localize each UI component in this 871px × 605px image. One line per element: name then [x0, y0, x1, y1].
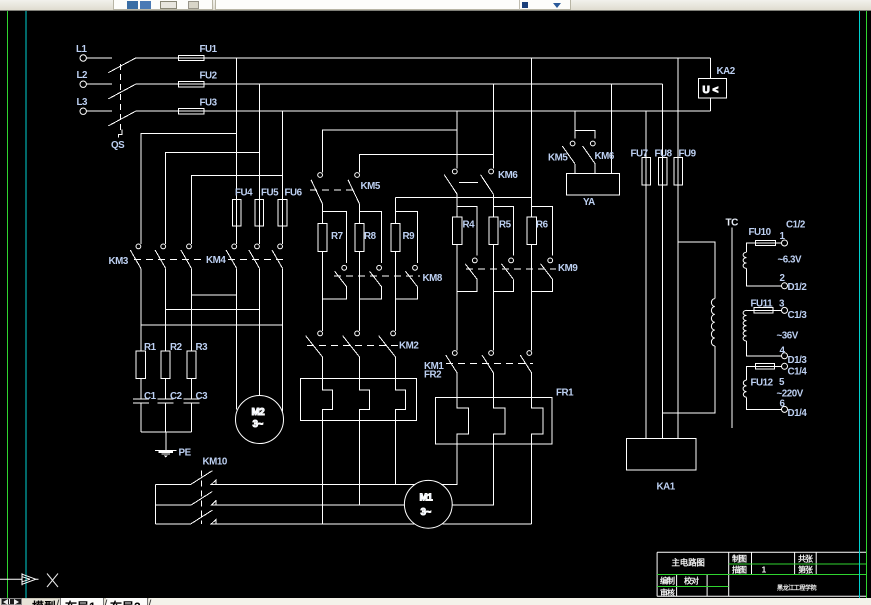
fuse FU6 — [278, 200, 287, 226]
svg-text:FU4: FU4 — [235, 188, 253, 199]
svg-text:审核: 审核 — [660, 588, 675, 598]
svg-text:KM5: KM5 — [548, 153, 568, 164]
svg-text:R8: R8 — [364, 231, 377, 242]
TC secondary winding 6.3V — [747, 243, 756, 252]
svg-text:第张: 第张 — [798, 565, 814, 575]
wire KM6p2 to R5 + bypass hook — [494, 194, 514, 255]
sheet outer border left (green) — [7, 11, 9, 598]
resistor R3 — [187, 351, 196, 379]
svg-text:校对: 校对 — [684, 576, 699, 586]
fuse FU7 — [642, 157, 651, 185]
wire bus1 drop to R6 column — [531, 58, 533, 198]
svg-text:FU12: FU12 — [751, 378, 774, 389]
switch QS handle — [119, 130, 123, 138]
wire to R1 — [140, 325, 142, 351]
FR1 heater element 3 — [532, 398, 543, 445]
contactor KM9 bypass contact pole 2 — [502, 258, 514, 279]
wire KM10 line1 to M1 (FR2p3 tee) — [216, 421, 416, 485]
terminal 6 D1/4 — [782, 406, 788, 412]
fuse FU3 — [136, 109, 205, 114]
capacitor C2 — [158, 379, 174, 432]
svg-text:C1/3: C1/3 — [788, 310, 808, 321]
wire to R3 — [190, 295, 192, 351]
svg-text:KM6: KM6 — [595, 151, 615, 162]
sheet inner frame left (cyan) — [25, 11, 27, 598]
wire secondary3 bottom to terminal 6 — [747, 397, 782, 409]
wire KM1 outputs to FR1 — [457, 373, 532, 398]
svg-text:制图: 制图 — [732, 554, 747, 564]
svg-text:L1: L1 — [76, 44, 88, 55]
contactor KM9 bypass contact pole 3 — [541, 258, 553, 279]
wire TC primary return to FU8 column — [663, 346, 715, 413]
KM1 linkage (dashed) — [446, 363, 533, 365]
FR2 heater element 1 — [323, 379, 333, 421]
svg-text:C3: C3 — [196, 391, 209, 402]
wire aux contacts to YA — [575, 164, 595, 173]
TC secondary winding 220V — [747, 366, 756, 380]
svg-text:FU1: FU1 — [200, 44, 218, 55]
svg-text:共张: 共张 — [798, 554, 814, 564]
contactor KM9 bypass contact pole 1 — [465, 258, 477, 279]
svg-text:U <: U < — [703, 85, 719, 96]
wire KM6p1 to R4 + bypass hook — [457, 194, 477, 255]
svg-text:描图: 描图 — [732, 565, 747, 575]
KM10 linkage (dashed) — [201, 471, 203, 524]
sheet inner frame right (cyan) — [859, 11, 861, 598]
svg-text:R5: R5 — [499, 220, 512, 231]
wire KA2 to bus3 end — [709, 98, 711, 111]
svg-text:C1/2: C1/2 — [786, 220, 806, 231]
svg-text:FU10: FU10 — [749, 227, 772, 238]
svg-text:FU3: FU3 — [200, 98, 218, 109]
FR1 heater element 1 — [457, 398, 468, 445]
fuse FU5 — [255, 200, 264, 226]
wire FR1p2 to M1 east — [452, 444, 493, 505]
svg-text:R4: R4 — [463, 220, 476, 231]
switch KM10 pole 3 — [156, 510, 216, 524]
title block green rules — [657, 564, 866, 587]
terminal 3 C1/3 — [782, 307, 788, 313]
svg-text:KM10: KM10 — [203, 457, 228, 468]
contactor KM1 main contact pole 2 — [482, 351, 494, 373]
svg-text:KA2: KA2 — [717, 66, 736, 77]
wire star node line — [396, 197, 532, 199]
wire capacitor bottom bus — [141, 431, 192, 433]
node L3 terminal — [80, 108, 112, 114]
capacitor C3 — [183, 379, 199, 432]
svg-text:KA1: KA1 — [657, 482, 676, 493]
FR1 heater element 2 — [494, 398, 505, 445]
wire bus1 col to R6 + bypass hook — [532, 198, 553, 256]
contactor KM6 main contact pole 2 — [481, 169, 494, 194]
motor M2 — [236, 396, 284, 444]
contactor KM2 main contact pole 3 — [379, 331, 396, 357]
relay KA2 box U< — [698, 79, 726, 98]
fuse FU12 — [756, 364, 782, 369]
thermal relay FR1 box — [435, 398, 552, 445]
svg-text:R9: R9 — [403, 231, 416, 242]
switch QS pole 2 — [108, 84, 135, 99]
wire bus3 drop to KM3 pole3 / FU6 — [191, 111, 282, 244]
wire bus2 drop to KM6 pole2 + branch KM5 pole2 — [360, 84, 494, 172]
resistor R5 — [489, 217, 498, 244]
wire star to R9 + bypass hook — [396, 198, 418, 264]
node L1 terminal — [80, 55, 112, 61]
svg-text:M1: M1 — [420, 493, 434, 504]
wire R8/KM8p2 joint — [360, 252, 382, 331]
wire bus3 drop to KM5/KM6 aux — [575, 111, 595, 139]
svg-text:TC: TC — [726, 218, 739, 229]
wire bus2 end drop to FU8 — [662, 84, 664, 157]
KM5 linkage (dashed) — [310, 189, 356, 191]
label M2 — [252, 407, 266, 430]
svg-text:KM6: KM6 — [498, 170, 518, 181]
svg-text:R6: R6 — [536, 220, 549, 231]
resistor R7 — [318, 224, 327, 252]
UCS icon X glyph — [47, 574, 58, 588]
svg-text:KM4: KM4 — [206, 255, 226, 266]
switch QS pole 1 — [108, 58, 135, 73]
wire FU7 to KA1 — [645, 185, 647, 439]
wire bus L1 — [204, 57, 710, 59]
node L2 terminal — [80, 81, 112, 87]
wire FU5 to KM4 pole2 — [258, 226, 260, 244]
svg-text:KM2: KM2 — [399, 341, 419, 352]
fuse FU9 — [674, 157, 683, 185]
svg-text:M2: M2 — [252, 407, 266, 418]
wire KM10 line2 to M1 west (FR2p2 tee) — [216, 421, 405, 506]
contactor KM5 aux contact — [562, 141, 575, 164]
KM8 linkage (dashed) — [334, 275, 420, 277]
svg-text:FU11: FU11 — [751, 299, 774, 310]
svg-text:PE: PE — [179, 448, 192, 459]
fuse FU11 — [754, 308, 782, 313]
KM4 linkage (dashed) — [228, 258, 284, 260]
resistor R4 — [453, 217, 462, 244]
svg-text:FU8: FU8 — [655, 149, 673, 160]
switch KM10 pole 1 — [156, 471, 216, 485]
FR2 heater element 2 — [360, 379, 370, 421]
resistor R6 — [527, 217, 536, 244]
wire KM4p3 to M2 — [282, 325, 284, 412]
resistor R9 — [391, 224, 400, 252]
KM9 linkage (dashed) — [466, 268, 556, 270]
contactor KM5 main contact pole 1 — [311, 173, 323, 204]
title block frame — [657, 552, 866, 596]
svg-text:KM5: KM5 — [361, 181, 381, 192]
switch QS linkage (dashed) — [119, 64, 121, 130]
contactor KM4 main contact pole 3 — [272, 244, 283, 268]
svg-text:FU5: FU5 — [261, 188, 279, 199]
fuse FU10 — [756, 240, 782, 245]
svg-text:C2: C2 — [170, 391, 183, 402]
svg-text:FU2: FU2 — [200, 71, 218, 82]
svg-text:D1/2: D1/2 — [788, 282, 808, 293]
svg-text:R3: R3 — [196, 342, 209, 353]
contactor KM3 main contact pole 3 — [181, 244, 192, 268]
contactor KM2 main contact pole 2 — [343, 331, 360, 357]
contactor KM3 main contact pole 1 — [130, 244, 141, 268]
svg-text:6: 6 — [780, 399, 786, 410]
wire KM5p1 to R7 + bypass hook — [323, 204, 347, 263]
svg-text:D1/3: D1/3 — [788, 355, 808, 366]
wire to R2 — [165, 310, 167, 351]
wire bus3 tap to FU7 — [645, 111, 647, 157]
KM6 linkage bar — [459, 182, 478, 184]
svg-text:KM9: KM9 — [558, 263, 578, 274]
terminal 5 C1/4 — [782, 363, 788, 369]
wire R6/KM9p3 joint — [532, 245, 553, 351]
svg-text:~6.3V: ~6.3V — [778, 255, 803, 266]
svg-text:KM8: KM8 — [423, 273, 443, 284]
fuse FU2 — [136, 82, 205, 87]
UCS icon X axis arrow — [0, 573, 39, 585]
KM2 linkage (dashed) — [307, 345, 398, 347]
contactor KM6 aux contact — [583, 141, 596, 164]
contactor KM5 main contact pole 2 — [348, 173, 360, 204]
wire FU4 to KM4 pole1 — [236, 226, 238, 244]
svg-text:R2: R2 — [170, 342, 183, 353]
wire secondary2 bottom to terminal 4 — [747, 341, 782, 356]
wire KM5p2 to R8 + bypass hook — [360, 204, 382, 263]
contactor KM3 main contact pole 2 — [155, 244, 166, 268]
svg-text:L2: L2 — [77, 70, 89, 81]
motor M1 — [404, 480, 452, 528]
svg-text:~36V: ~36V — [777, 331, 799, 342]
resistor R2 — [161, 351, 170, 379]
wire bus1 drop to KM3 pole1 / FU4 — [141, 58, 237, 244]
svg-text:编制: 编制 — [660, 576, 675, 586]
wire bus1 end to KA2 — [709, 58, 711, 79]
wire KM3p2 to KM4p2 — [166, 268, 260, 309]
fuse FU8 — [658, 157, 667, 185]
wire bus3 drop to KM6 pole1 + branch KM5 pole1 — [323, 111, 458, 172]
svg-text:YA: YA — [583, 197, 595, 208]
contactor KM1 main contact pole 3 — [520, 351, 532, 373]
wire FU9 to KA1 (TC primary feed tee) — [677, 185, 679, 439]
TC secondary winding 36V — [747, 309, 754, 311]
contactor KM8 bypass contact pole 1 — [335, 265, 347, 286]
contactor KM2 main contact pole 1 — [306, 331, 323, 357]
svg-text:FR1: FR1 — [556, 388, 574, 399]
KM3 linkage (dashed) — [134, 258, 203, 260]
toolbar strip — [0, 0, 871, 11]
wire FU6 to KM4 pole3 — [282, 226, 284, 244]
resistor R1 — [136, 351, 145, 379]
contactor KM4 main contact pole 2 — [249, 244, 260, 268]
svg-text:QS: QS — [111, 140, 125, 151]
wire FU8 to KA1 (TC primary return tee) — [662, 185, 664, 439]
wire bus2 drop to YA — [610, 84, 612, 173]
FR2 heater element 3 — [396, 379, 406, 421]
wire bus L2 — [204, 83, 662, 85]
svg-text:L3: L3 — [77, 97, 89, 108]
wire bus L3 — [204, 110, 710, 112]
contactor KM8 bypass contact pole 3 — [405, 265, 417, 286]
svg-text:3~: 3~ — [253, 419, 264, 430]
contactor KM6 main contact pole 1 — [444, 169, 457, 194]
terminal 2 D1/2 — [782, 283, 788, 289]
relay KA1 box — [626, 439, 696, 470]
wire KM10 line3 bottom (FR2p1 tee, to FR1p3) — [216, 421, 532, 524]
wire KM3p1 to KM4p3 — [141, 268, 283, 325]
svg-text:5: 5 — [779, 377, 785, 388]
contactor KM8 bypass contact pole 2 — [370, 265, 382, 286]
TC primary winding — [711, 299, 714, 346]
TC core — [731, 228, 733, 428]
wire KM3p3 to KM4p1 — [191, 268, 236, 295]
svg-text:4: 4 — [780, 346, 786, 357]
switch QS pole 3 — [108, 111, 135, 126]
svg-text:FU7: FU7 — [631, 149, 649, 160]
svg-text:1: 1 — [762, 565, 767, 575]
switch KM10 pole 2 — [156, 492, 216, 506]
svg-text:FU6: FU6 — [285, 188, 303, 199]
resistor R8 — [355, 224, 364, 252]
fuse FU4 — [232, 200, 241, 226]
wire R5/KM9p2 joint — [494, 245, 514, 351]
svg-text:D1/4: D1/4 — [788, 408, 808, 419]
svg-text:黑龙江工程学院: 黑龙江工程学院 — [777, 584, 817, 592]
wire secondary1 bottom to terminal 2 — [747, 268, 782, 285]
svg-text:主电路图: 主电路图 — [672, 558, 705, 568]
wire bus2 drop to KM3 pole2 / FU5 — [166, 84, 260, 244]
ground PE — [155, 432, 176, 458]
electromagnet YA box — [567, 173, 620, 195]
svg-text:R1: R1 — [144, 342, 157, 353]
terminal 1 C1/2 — [782, 240, 788, 246]
sheet outer border right (green) — [866, 11, 868, 598]
svg-text:KM3: KM3 — [109, 256, 129, 267]
thermal relay FR2 box — [300, 379, 416, 421]
switch KM10 shorting bar — [155, 484, 157, 524]
svg-text:3~: 3~ — [421, 507, 432, 518]
svg-text:C1/4: C1/4 — [788, 367, 808, 378]
fuse FU1 — [136, 55, 205, 60]
contactor KM4 main contact pole 1 — [226, 244, 237, 268]
wire bus1 tap to FU9 — [677, 58, 679, 157]
wire R9/KM8p3 joint — [396, 252, 418, 331]
contactor KM1 main contact pole 1 — [446, 351, 458, 373]
wire KM4p2 to M2 — [258, 310, 260, 396]
terminal 4 D1/3 — [782, 353, 788, 359]
wire FU9 tee to TC primary — [678, 242, 715, 299]
label M1 — [420, 493, 434, 519]
svg-text:FU9: FU9 — [679, 149, 697, 160]
wire R4/KM9p1 joint — [457, 245, 477, 351]
wire FR1p1 to M1 upper-right — [441, 444, 457, 484]
layout tab bar — [0, 598, 871, 605]
svg-text:R7: R7 — [331, 231, 344, 242]
sheet border overlay right — [859, 540, 861, 598]
wire R7/KM8p1 joint — [323, 252, 347, 331]
wire KM4p1 to M2 — [236, 295, 238, 410]
svg-text:FR2: FR2 — [424, 370, 442, 381]
capacitor C1 — [133, 379, 149, 432]
wire KM2 outputs to FR2 — [323, 357, 396, 379]
svg-text:C1: C1 — [144, 391, 157, 402]
